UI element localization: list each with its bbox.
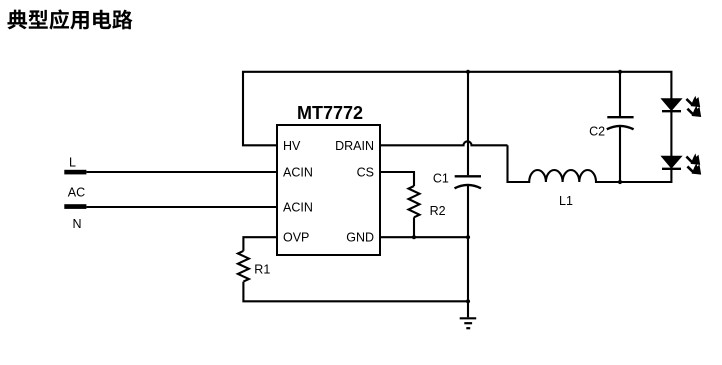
svg-text:CS: CS [357, 166, 374, 180]
ground [460, 318, 477, 328]
wire LED string vertical [670, 111, 672, 156]
wire R1 to bottom rail [243, 282, 468, 302]
wire C1 branch vertical upper [467, 72, 469, 176]
svg-text:L: L [69, 156, 76, 170]
wire ACIN1 from L terminal [86, 171, 277, 173]
terminal bar L [64, 170, 86, 175]
svg-text:N: N [73, 217, 82, 231]
svg-text:C1: C1 [433, 172, 449, 186]
wire R2 to GND wire [413, 217, 415, 237]
capacitor C2 [607, 117, 634, 129]
svg-text:R1: R1 [254, 263, 270, 277]
svg-text:ACIN: ACIN [283, 201, 313, 215]
wire HV loop to top rail [243, 72, 671, 146]
LED D2 [662, 156, 682, 169]
wire C2 bottom to LED rail [619, 126, 621, 182]
junction node GND wire / C1 line [466, 235, 470, 239]
svg-text:ACIN: ACIN [283, 166, 313, 180]
wire OVP to R1 [243, 237, 277, 251]
junction node C2 / LED return [618, 180, 622, 184]
junction node bottom rail / ground [466, 299, 470, 303]
LED D1 [662, 99, 682, 112]
svg-text:GND: GND [346, 231, 374, 245]
resistor R2 [409, 186, 420, 217]
wire C2 branch vertical upper [619, 72, 621, 116]
svg-text:HV: HV [283, 139, 301, 153]
junction node R2 / GND wire [412, 235, 416, 239]
terminal bar N [64, 204, 86, 209]
svg-text:OVP: OVP [283, 231, 309, 245]
title 典型应用电路 [7, 9, 132, 29]
svg-text:DRAIN: DRAIN [335, 139, 374, 153]
inductor L1 [508, 145, 672, 182]
capacitor C1 [455, 176, 482, 188]
op-amp U1 : IC body MT7772 [277, 125, 380, 255]
junction node top rail / C1 [466, 70, 470, 74]
wire LED2 to bottom corner [660, 169, 671, 182]
wire C1 bottom to ground node [467, 185, 469, 317]
svg-text:R2: R2 [430, 204, 446, 218]
wire ACIN2 from N terminal [86, 206, 277, 208]
wire DRAIN with crossover hop [380, 141, 508, 145]
junction node top rail / C2 [618, 70, 622, 74]
wire GND [380, 236, 468, 238]
LED D1 emission arrows [686, 97, 700, 117]
resistor R1 [238, 251, 249, 282]
svg-text:MT7772: MT7772 [297, 103, 363, 123]
svg-text:C2: C2 [589, 124, 605, 138]
LED D2 emission arrows [686, 155, 700, 175]
svg-text:AC: AC [68, 186, 85, 200]
svg-text:L1: L1 [559, 194, 573, 208]
wire CS to R2 [380, 172, 414, 186]
